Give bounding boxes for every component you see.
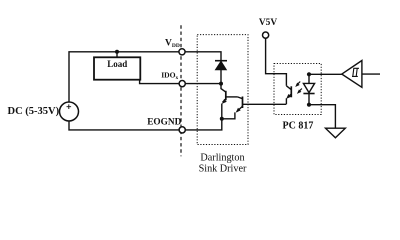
node dot collector/IDO (219, 82, 223, 86)
diode D1 flyback (215, 60, 227, 62)
wire bottom rail (EOGND) (69, 119, 222, 130)
svg-text:Sink Driver: Sink Driver (199, 164, 247, 175)
terminal VDD (179, 49, 185, 55)
wire LED cathode to ground (309, 105, 335, 129)
terminal IDOx (179, 81, 185, 87)
terminal EOGND (179, 127, 185, 133)
wire buffer output (362, 73, 380, 75)
wire V5V to photo collector (266, 38, 287, 86)
PC 817 box (274, 64, 321, 115)
load box (94, 57, 140, 79)
transistor Q2 output (221, 84, 226, 93)
wire load top stub (116, 52, 118, 58)
node dot on VDD rail (115, 50, 119, 54)
node dot emitter/EOGND (220, 117, 224, 121)
svg-text:Darlington: Darlington (200, 153, 244, 164)
node dot LED anode (307, 72, 311, 76)
schmitt buffer U2 (342, 61, 362, 88)
svg-text:VDD: VDD (165, 39, 180, 50)
transistor Q1 driver (238, 97, 243, 99)
wire LED anode to buffer (309, 73, 342, 75)
wire VDD rail (69, 52, 221, 102)
node dot LED cathode (307, 103, 311, 107)
svg-text:IDOx: IDOx (161, 70, 178, 81)
ground symbol (326, 128, 346, 138)
DC source V1 (60, 102, 79, 121)
svg-text:V5V: V5V (259, 18, 277, 28)
phototransistor U1b (290, 86, 292, 97)
wire IDO rail (140, 80, 221, 84)
LED emission arrow 1 (297, 82, 301, 86)
LED emission arrow 2 (298, 89, 302, 93)
svg-text:Load: Load (107, 59, 127, 69)
Darlington Sink Driver box (197, 35, 248, 145)
dashed boundary line (interface) (180, 25, 182, 156)
svg-text:PC 817: PC 817 (283, 120, 314, 131)
svg-text:EOGND: EOGND (147, 117, 181, 127)
LED D2 of PC817 (308, 74, 310, 83)
terminal V5V (263, 32, 269, 38)
svg-text:DC (5-35V): DC (5-35V) (8, 106, 60, 117)
